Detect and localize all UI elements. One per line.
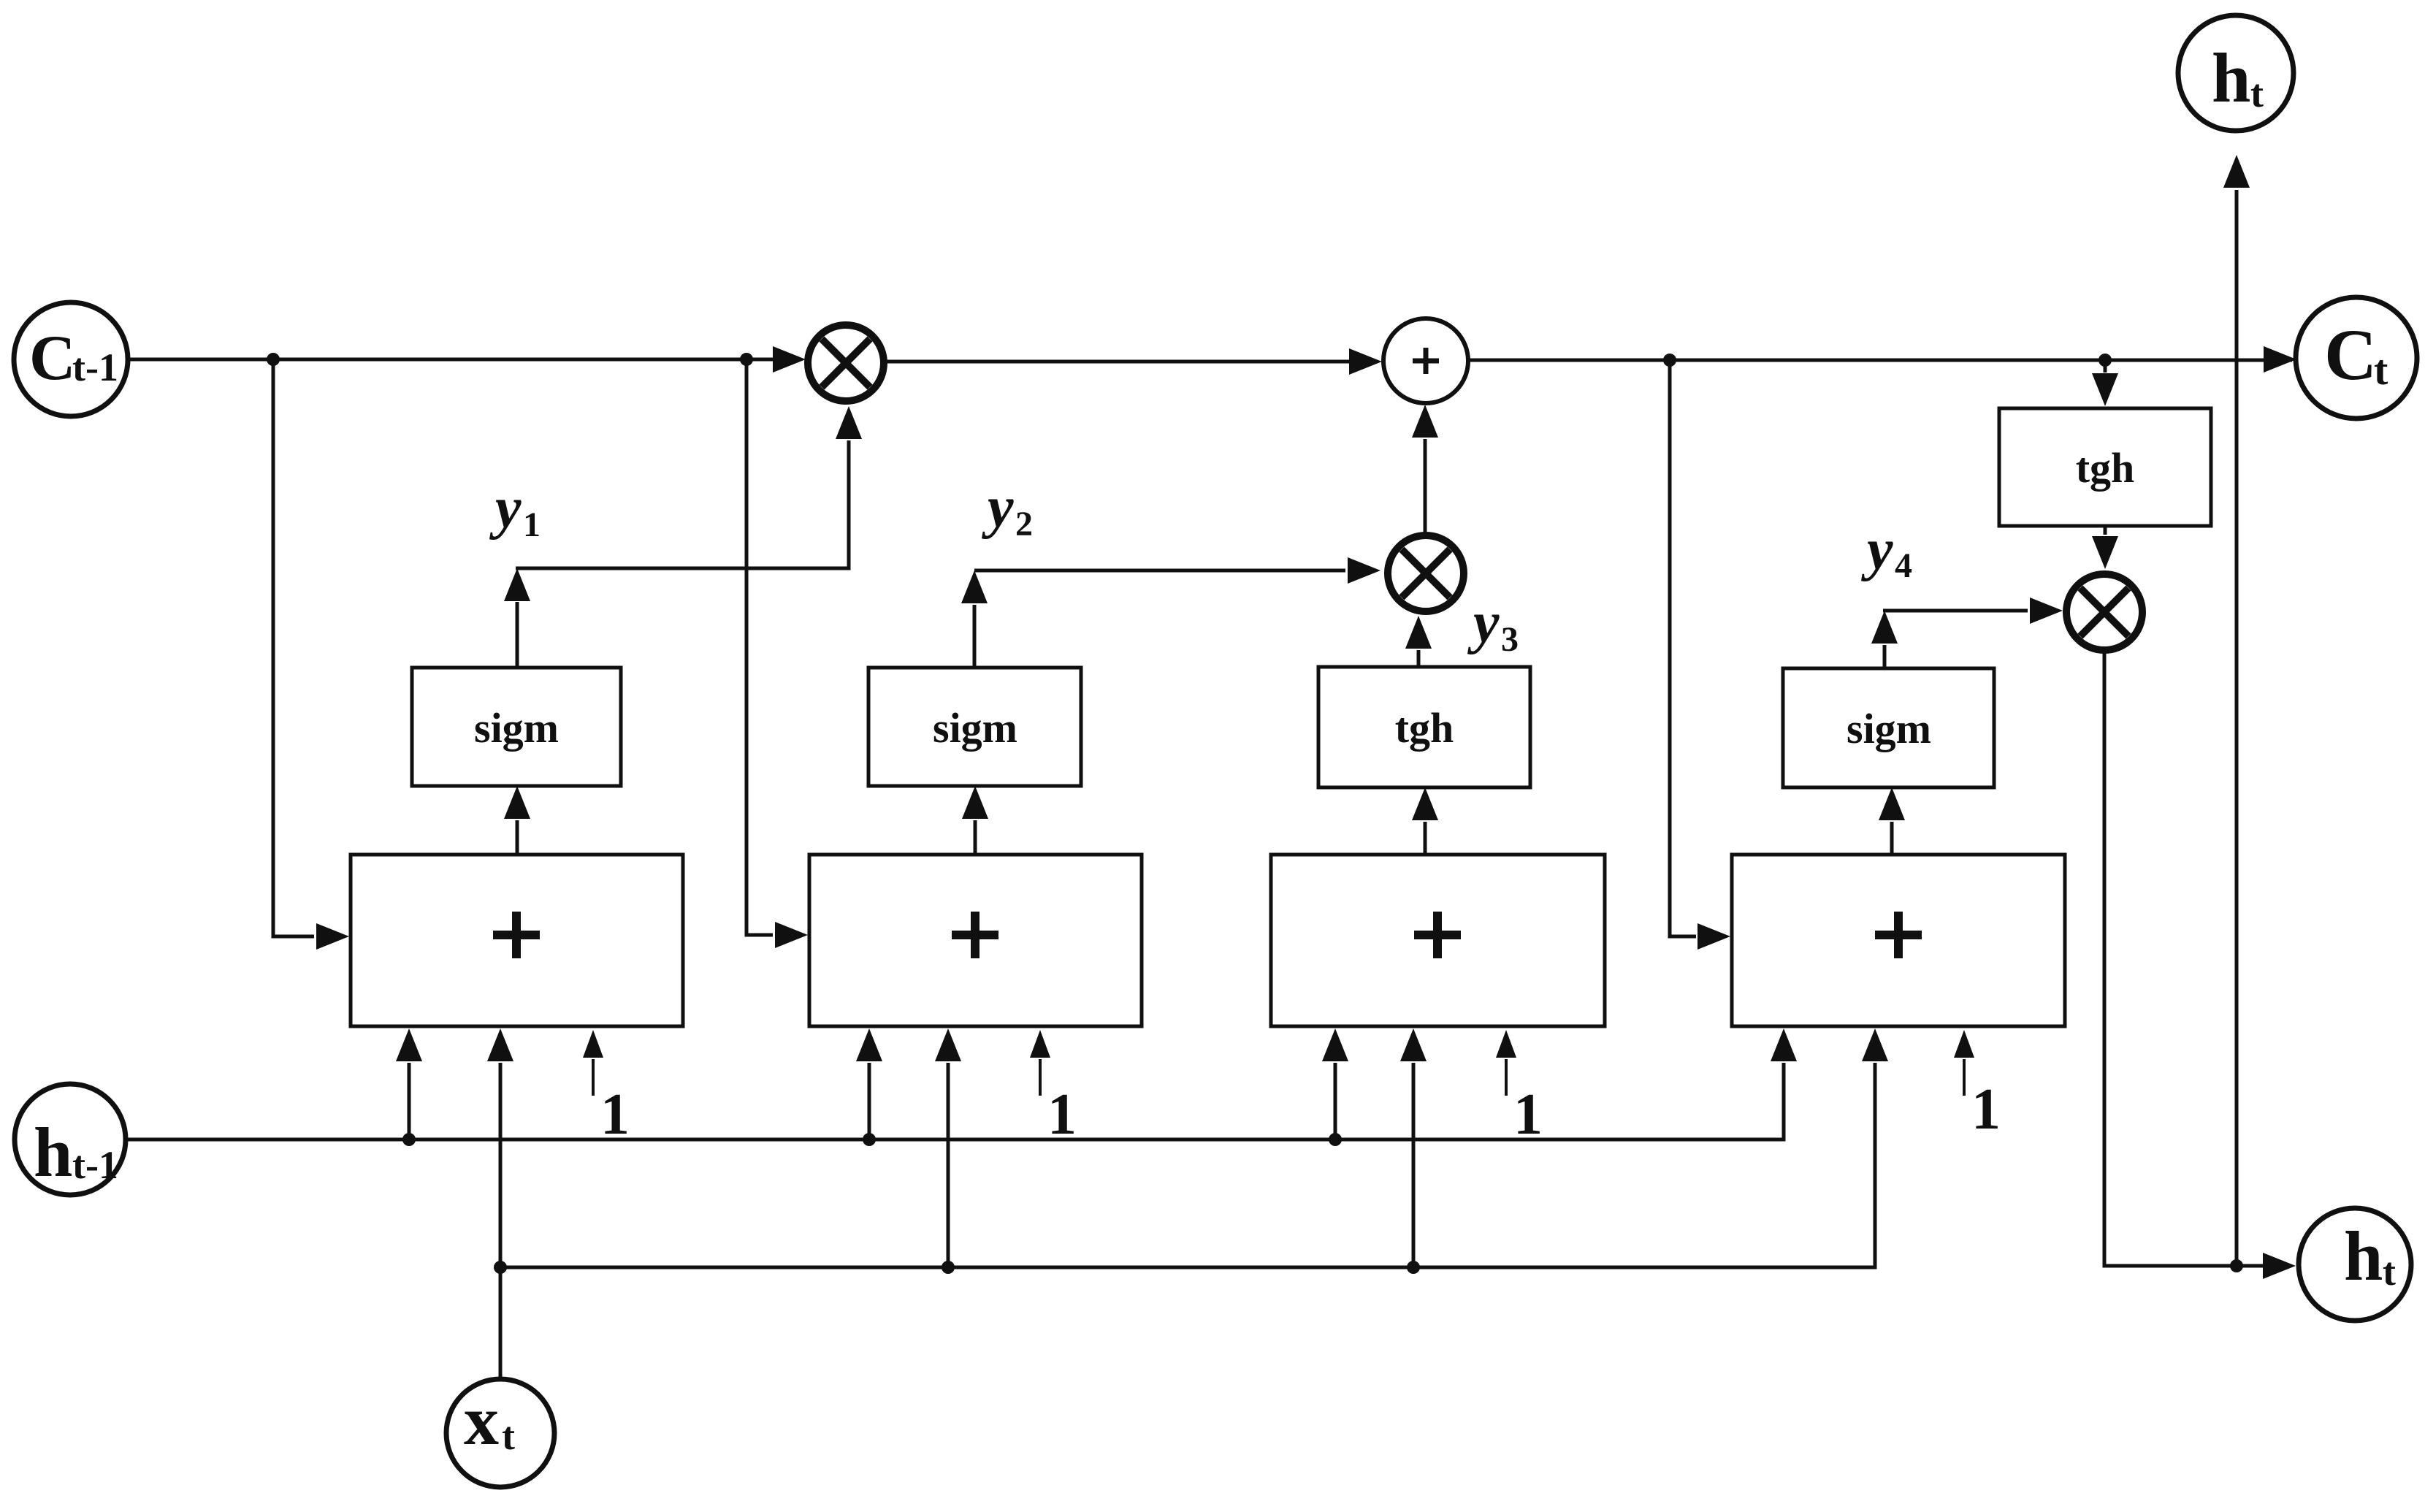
wire plus box 4 to sigm 4 — [1879, 787, 1905, 853]
wire drop from C line into plus box 1 — [273, 359, 349, 950]
wire adder down link to X2 multiplier — [1412, 405, 1438, 532]
wire h input arrow to plus box 1 — [396, 1028, 422, 1139]
svg-text:2: 2 — [1015, 505, 1033, 543]
box plus 1 — [351, 855, 683, 1026]
wire y4 from sigm 4 to X3 multiplier — [1871, 597, 2063, 667]
wire adder to Ct — [1470, 346, 2296, 373]
svg-text:t-1: t-1 — [72, 345, 118, 389]
junction dot on C line after adder — [1663, 354, 1676, 367]
bias 1 arrow into plus box 4 — [1954, 1030, 1974, 1096]
wire y3 from tgh 3 up to X2 multiplier — [1405, 616, 1432, 665]
svg-text:1: 1 — [600, 1083, 630, 1147]
svg-text:3: 3 — [1501, 620, 1519, 659]
wire up to node ht top — [2223, 155, 2250, 1266]
node xt — [446, 1379, 554, 1487]
junction dot x bus for plus box 2 — [942, 1261, 955, 1274]
svg-text:C: C — [2324, 314, 2377, 395]
box sigm 4 — [1783, 668, 1994, 787]
wire h input arrow to plus box 2 — [856, 1028, 882, 1139]
wire plus box 1 to sigm 1 — [504, 786, 530, 853]
box plus 3 — [1271, 855, 1605, 1026]
junction dot on C line at second drop — [740, 353, 753, 366]
svg-text:sigm: sigm — [474, 704, 559, 752]
wire xt bus — [500, 1028, 1888, 1267]
multiplier X1 — [808, 325, 884, 401]
bias 1 arrow into plus box 2 — [1030, 1030, 1050, 1096]
box plus 4 — [1732, 855, 2065, 1026]
box sigm 1 — [412, 668, 621, 786]
box tgh 3 — [1318, 667, 1530, 787]
junction dot on C line at first drop — [267, 353, 280, 366]
junction dot x bus for plus box 3 — [1407, 1261, 1420, 1274]
svg-text:1: 1 — [1513, 1083, 1543, 1147]
wire drop from C line into plus box 2 — [746, 359, 808, 948]
wire h input arrow to plus box 3 — [1322, 1028, 1348, 1139]
svg-text:y: y — [1860, 518, 1893, 582]
svg-text:sigm: sigm — [1847, 705, 1931, 752]
svg-text:t: t — [2383, 1250, 2396, 1294]
junction dot xt branch — [494, 1261, 507, 1274]
wire right tgh box to X3 multiplier — [2092, 527, 2118, 569]
svg-text:x: x — [464, 1381, 499, 1459]
box sigm 2 — [868, 668, 1081, 786]
adder circle — [1383, 318, 1468, 403]
svg-text:y: y — [489, 476, 522, 541]
svg-text:h: h — [2344, 1217, 2383, 1295]
box plus 2 — [809, 855, 1142, 1026]
svg-text:C: C — [29, 323, 76, 394]
svg-text:tgh: tgh — [2076, 444, 2135, 492]
wire X1 to adder — [887, 348, 1382, 375]
svg-text:1: 1 — [523, 505, 541, 544]
box tgh right — [1999, 408, 2211, 526]
node ht bottom — [2299, 1208, 2411, 1321]
junction dot h bus for plus box 3 — [1329, 1133, 1342, 1146]
svg-text:1: 1 — [1971, 1077, 2001, 1142]
svg-text:tgh: tgh — [1395, 704, 1454, 752]
junction dot on ht output wire — [2230, 1259, 2243, 1272]
svg-text:y: y — [1467, 591, 1500, 655]
wire xt vertical into plus box 1 — [487, 1028, 513, 1379]
junction dot h bus for plus box 1 — [402, 1133, 416, 1146]
multiplier X3 — [2066, 574, 2142, 650]
svg-text:h: h — [2212, 39, 2250, 117]
wire y2 from sigm 2 to X2 multiplier — [961, 557, 1380, 666]
wire x input arrow to plus box 3 — [1400, 1028, 1427, 1267]
node Ct — [2296, 297, 2417, 419]
wire Ct-1 to X1 multiplier — [128, 346, 806, 373]
wire X3 down and right to node ht bottom — [2104, 652, 2296, 1279]
wire y1 from sigm 1 up to X1 multiplier — [504, 406, 862, 666]
bias 1 arrow into plus box 1 — [583, 1030, 603, 1096]
node ht-1 — [15, 1084, 126, 1195]
wire x input arrow to plus box 2 — [935, 1028, 961, 1267]
svg-text:t-1: t-1 — [72, 1143, 118, 1187]
svg-text:y: y — [981, 476, 1014, 540]
bias 1 arrow into plus box 3 — [1496, 1030, 1516, 1096]
wire plus box 3 to tgh 3 — [1412, 787, 1438, 853]
junction dot h bus for plus box 2 — [863, 1133, 876, 1146]
svg-text:h: h — [34, 1113, 72, 1191]
node Ct-1 — [14, 302, 128, 416]
svg-text:4: 4 — [1895, 546, 1912, 585]
node ht top — [2178, 15, 2294, 131]
wire plus box 2 to sigm 2 — [962, 786, 988, 853]
junction dot on C line above right tgh — [2099, 354, 2112, 367]
wire drop from C line into plus box 4 — [1670, 360, 1730, 950]
wire drop from C line into right tgh box — [2092, 360, 2118, 406]
svg-text:t: t — [2374, 346, 2388, 394]
wire ht-1 bus — [126, 1028, 1797, 1139]
svg-text:t: t — [502, 1414, 515, 1458]
svg-text:t: t — [2250, 72, 2264, 115]
svg-text:1: 1 — [1047, 1083, 1077, 1147]
svg-text:sigm: sigm — [933, 704, 1017, 752]
multiplier X2 — [1388, 535, 1464, 611]
